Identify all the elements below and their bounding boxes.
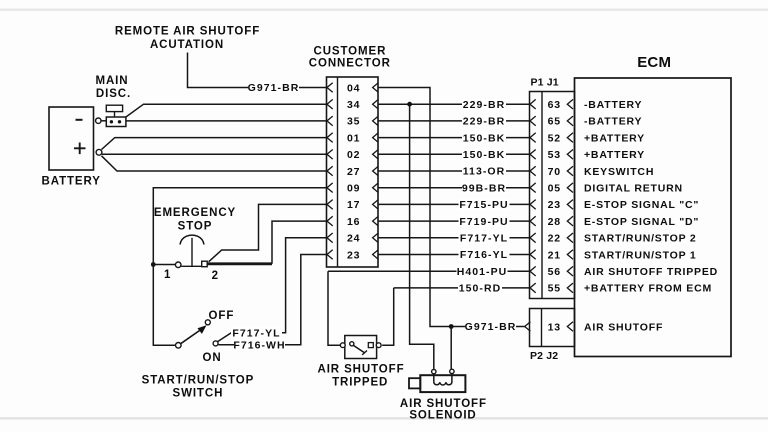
ECM module U1: [575, 54, 732, 357]
svg-text:13: 13: [548, 321, 561, 333]
svg-text:F719-PU: F719-PU: [459, 216, 508, 228]
svg-text:56: 56: [548, 266, 561, 278]
svg-text:F715-PU: F715-PU: [459, 199, 508, 211]
svg-text:150-RD: 150-RD: [459, 283, 501, 295]
svg-text:F716-WH: F716-WH: [233, 340, 285, 352]
connector P1 J1: [530, 76, 575, 298]
junction dot G971 to solenoid: [449, 324, 454, 329]
svg-text:F717-YL: F717-YL: [460, 233, 508, 245]
svg-text:01: 01: [347, 132, 360, 144]
svg-text:53: 53: [548, 149, 561, 161]
svg-text:17: 17: [347, 199, 360, 211]
wire disconnect to pin 34: [126, 104, 327, 117]
svg-text:09: 09: [347, 183, 360, 195]
svg-text:DIGITAL RETURN: DIGITAL RETURN: [584, 183, 683, 195]
svg-text:G971-BR: G971-BR: [465, 321, 517, 333]
customer connector pin 23: [327, 249, 378, 261]
wire label F716-WH: [234, 339, 285, 351]
tripped switch left terminal: [340, 343, 345, 348]
svg-text:229-BR: 229-BR: [463, 99, 505, 111]
svg-text:KEYSWITCH: KEYSWITCH: [584, 166, 654, 178]
customer connector pin 34: [327, 99, 378, 111]
P1 pin 28: [530, 216, 573, 228]
wire ON contact to pin 23 F716-WH: [218, 255, 326, 345]
svg-text:REMOTE AIR SHUTOFF: REMOTE AIR SHUTOFF: [115, 25, 260, 37]
svg-text:113-OR: 113-OR: [463, 166, 506, 178]
wire battery negative to disconnect: [101, 120, 106, 122]
air shutoff solenoid L1: [409, 374, 465, 392]
battery positive terminal: [96, 149, 102, 155]
wire label 229-BR: [462, 98, 506, 110]
wire label F717-YL: [459, 232, 510, 244]
svg-text:1: 1: [164, 269, 171, 281]
battery negative terminal: [96, 118, 101, 123]
P1 pin 21: [530, 249, 573, 261]
P1 pin 52: [530, 132, 573, 144]
P1 pin 70: [530, 166, 573, 178]
e-stop contact 1: [175, 262, 181, 268]
wire label H401-PU: [457, 265, 508, 277]
svg-text:P1 J1: P1 J1: [531, 76, 559, 88]
wire label G971-BR: [248, 82, 299, 94]
solenoid right terminal: [450, 369, 454, 373]
P1 pin 56: [530, 266, 573, 278]
wire pin 09 digital return vertical: [153, 188, 326, 346]
svg-text:AIR SHUTOFF: AIR SHUTOFF: [400, 398, 487, 410]
svg-text:E-STOP SIGNAL "D": E-STOP SIGNAL "D": [584, 216, 699, 228]
customer connector pin 27: [327, 166, 378, 178]
customer connector pin 09: [327, 183, 378, 195]
svg-text:150-BK: 150-BK: [463, 149, 505, 161]
wire label 150-BK: [462, 148, 506, 160]
battery B1: [42, 107, 101, 188]
svg-text:OFF: OFF: [209, 310, 235, 322]
customer connector pin 04: [327, 82, 378, 94]
wire G971 from actuation to pin 04: [188, 53, 327, 88]
svg-text:23: 23: [548, 199, 561, 211]
wire 229-BR pin 35 to P1-65: [378, 120, 530, 122]
start/run/stop switch S2 common: [176, 343, 182, 349]
P1 pin 22: [530, 233, 573, 245]
wire battery positive to pin 01: [102, 138, 327, 150]
svg-text:H401-PU: H401-PU: [457, 266, 508, 278]
svg-text:23: 23: [347, 249, 360, 261]
svg-text:16: 16: [347, 216, 360, 228]
svg-text:22: 22: [548, 233, 561, 245]
svg-text:P2 J2: P2 J2: [530, 350, 558, 362]
svg-text:MAIN: MAIN: [96, 75, 129, 87]
svg-text:65: 65: [548, 116, 561, 128]
svg-text:ECM: ECM: [637, 54, 671, 71]
wire label 150-RD: [458, 282, 502, 294]
svg-text:05: 05: [548, 183, 561, 195]
svg-text:02: 02: [347, 149, 360, 161]
customer connector pin 24: [327, 233, 378, 245]
svg-text:70: 70: [548, 166, 561, 178]
wire 113-OR pin 27 to P1-70: [378, 170, 530, 172]
wire dot to contact 1: [153, 264, 175, 266]
wire label F719-PU: [459, 215, 510, 227]
wire pin 04 to air shutoff net G971: [378, 88, 451, 327]
start/run/stop OFF contact: [205, 320, 210, 325]
customer connector pin 17: [327, 199, 378, 211]
svg-text:SOLENOID: SOLENOID: [409, 410, 476, 422]
wire battery positive to pin 27: [102, 156, 327, 171]
svg-text:START/RUN/STOP 2: START/RUN/STOP 2: [584, 233, 697, 245]
svg-text:35: 35: [347, 116, 360, 128]
wire label F716-YL: [459, 249, 510, 261]
P1 pin 65: [530, 116, 573, 128]
wire junction to solenoid left terminal: [410, 104, 434, 369]
e-stop contact 2: [202, 261, 208, 267]
svg-text:ACUTATION: ACUTATION: [150, 39, 224, 51]
junction dot 229-BR to solenoid: [407, 102, 412, 107]
wire ON contact to pin 24 F717-YL: [218, 238, 327, 342]
wire label F717-YL: [231, 327, 282, 339]
svg-text:DISC.: DISC.: [96, 88, 131, 100]
wire label 229-BR: [462, 115, 506, 127]
svg-text:52: 52: [548, 132, 561, 144]
P1 pin 63: [530, 99, 573, 111]
svg-text:+BATTERY FROM ECM: +BATTERY FROM ECM: [584, 283, 712, 295]
customer connector pin 16: [327, 216, 378, 228]
svg-text:-BATTERY: -BATTERY: [584, 116, 642, 128]
wire e-stop blade to pin 16: [207, 262, 272, 265]
svg-text:START/RUN/STOP: START/RUN/STOP: [142, 375, 254, 387]
wire F716-YL pin 23 to P1-21: [378, 254, 530, 256]
wire 150-BK pin 01 to P1-52: [378, 137, 530, 139]
svg-text:STOP: STOP: [178, 221, 213, 233]
wire 229-BR pin 34 to P1-63: [378, 103, 530, 105]
wire junction to solenoid right terminal: [450, 327, 452, 370]
svg-text:55: 55: [548, 283, 561, 295]
svg-text:CUSTOMER: CUSTOMER: [313, 45, 386, 57]
wire 150-BK pin 02 to P1-53: [378, 153, 530, 155]
svg-text:-BATTERY: -BATTERY: [584, 99, 642, 111]
connector P2 J2: [530, 309, 575, 363]
svg-text:+BATTERY: +BATTERY: [584, 149, 645, 161]
wire e-stop to pin 17: [209, 204, 327, 261]
P1 pin 55: [530, 283, 573, 295]
svg-text:CONNECTOR: CONNECTOR: [309, 58, 391, 70]
junction dot digital return: [151, 262, 156, 267]
solenoid left terminal: [432, 369, 436, 373]
svg-text:AIR SHUTOFF TRIPPED: AIR SHUTOFF TRIPPED: [584, 266, 718, 278]
svg-text:150-BK: 150-BK: [463, 132, 505, 144]
wire G971-BR to P2-13: [451, 326, 525, 328]
wire battery positive to pin 02: [102, 153, 327, 155]
P1 pin 05: [530, 183, 573, 195]
tripped switch right terminal: [376, 343, 381, 348]
wire F715-PU pin 17 to P1-23: [378, 203, 530, 205]
svg-text:START/RUN/STOP 1: START/RUN/STOP 1: [584, 249, 697, 261]
wire label F715-PU: [459, 198, 510, 210]
customer connector pin 35: [327, 116, 378, 128]
svg-text:EMERGENCY: EMERGENCY: [154, 207, 236, 219]
P2 pin 13: [525, 321, 573, 333]
wire H401-PU tripped switch to P1-56: [341, 344, 344, 346]
wire disconnect to pin 35: [126, 120, 327, 122]
svg-text:21: 21: [548, 249, 561, 261]
svg-text:G971-BR: G971-BR: [248, 82, 300, 94]
svg-text:F716-YL: F716-YL: [460, 249, 508, 261]
P1 pin 23: [530, 199, 573, 211]
customer connector pin 01: [327, 132, 378, 144]
wire 150-RD tripped switch to P1-55: [394, 287, 530, 289]
svg-text:+BATTERY: +BATTERY: [584, 132, 645, 144]
customer connector pin 02: [327, 149, 378, 161]
svg-text:AIR SHUTOFF: AIR SHUTOFF: [318, 363, 405, 375]
svg-text:TRIPPED: TRIPPED: [332, 377, 388, 389]
P1 pin 53: [530, 149, 573, 161]
wire label G971-BR: [465, 321, 516, 333]
customer connector J3: [309, 45, 391, 267]
svg-text:E-STOP SIGNAL "C": E-STOP SIGNAL "C": [584, 199, 699, 211]
svg-text:27: 27: [347, 166, 360, 178]
svg-text:2: 2: [212, 270, 219, 282]
start/run/stop switch blade with arrow: [181, 330, 202, 344]
svg-text:04: 04: [347, 82, 360, 94]
wire label 99B-BR: [462, 182, 506, 194]
wire F717-YL pin 24 to P1-22: [378, 237, 530, 239]
e-stop blade wire: [181, 265, 202, 267]
svg-text:F717-YL: F717-YL: [232, 328, 280, 340]
air shutoff tripped switch S3: [345, 336, 377, 359]
svg-text:99B-BR: 99B-BR: [462, 182, 506, 194]
wire F719-PU pin 16 to P1-28: [378, 220, 530, 222]
svg-text:34: 34: [347, 99, 360, 111]
svg-text:ON: ON: [202, 352, 221, 364]
svg-text:24: 24: [347, 233, 360, 245]
main disconnect switch: [96, 75, 132, 126]
emergency stop switch S1: [154, 207, 236, 282]
wire 99B-BR pin 09 to P1-05: [378, 187, 530, 189]
start/run/stop ON contact: [213, 341, 218, 346]
svg-text:28: 28: [548, 216, 561, 228]
svg-text:AIR SHUTOFF: AIR SHUTOFF: [584, 321, 663, 333]
wire label 150-BK: [462, 132, 506, 144]
svg-text:BATTERY: BATTERY: [42, 176, 101, 188]
wire label 113-OR: [462, 165, 506, 177]
svg-text:63: 63: [548, 99, 561, 111]
svg-text:SWITCH: SWITCH: [173, 388, 224, 400]
svg-text:229-BR: 229-BR: [463, 116, 505, 128]
